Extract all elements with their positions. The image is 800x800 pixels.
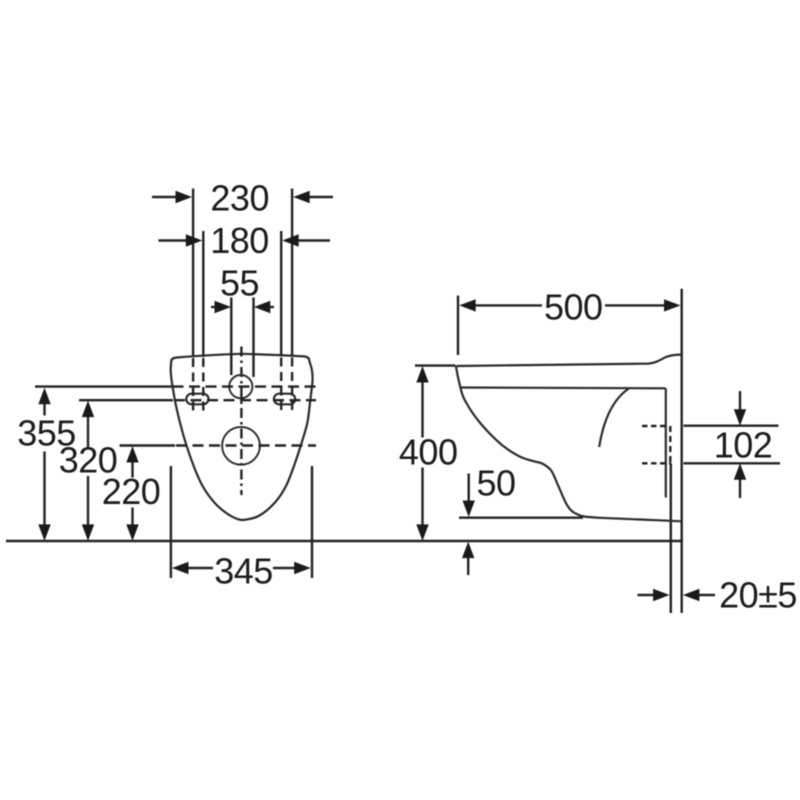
big hole circle bbox=[222, 427, 260, 465]
ext 500 left bbox=[457, 296, 459, 356]
ext horizontal 220 bbox=[120, 444, 176, 446]
svg-text:55: 55 bbox=[220, 263, 259, 304]
small hole circle bbox=[229, 375, 252, 398]
ext line 55 left bbox=[230, 298, 232, 376]
ext line 230 right bbox=[291, 189, 293, 357]
right fixing pill bbox=[274, 394, 295, 405]
ext 400 top bbox=[415, 364, 456, 366]
ext 345 right bbox=[311, 466, 313, 578]
ext line 180 left bbox=[202, 231, 204, 357]
svg-text:180: 180 bbox=[210, 220, 269, 261]
dim 320 vertical bbox=[87, 416, 89, 447]
dim 20±5 bbox=[638, 594, 655, 596]
dashed connection box bbox=[642, 425, 667, 427]
svg-text:500: 500 bbox=[544, 287, 603, 328]
dim 50 arrows bbox=[468, 474, 470, 502]
svg-text:230: 230 bbox=[210, 178, 269, 219]
ext 50 bbox=[459, 517, 583, 519]
ext line 230 left bbox=[192, 189, 194, 358]
front/bottom profile bbox=[456, 366, 682, 521]
dim 180 arrows bbox=[159, 239, 188, 241]
ext horizontal 320 bbox=[79, 399, 173, 401]
dim 220 vertical bbox=[131, 462, 133, 478]
ext 345 left bbox=[170, 466, 172, 578]
inner bowl arc bbox=[599, 389, 629, 448]
svg-text:400: 400 bbox=[399, 431, 458, 472]
ground line bbox=[6, 540, 683, 542]
ext horizontal 355 bbox=[35, 385, 172, 387]
wall inner line bbox=[670, 463, 672, 613]
fixture front outline bbox=[171, 354, 313, 520]
ext 102 lines bbox=[684, 425, 779, 427]
wall line bbox=[681, 289, 683, 613]
dim 400 bbox=[421, 382, 423, 438]
ext line 180 right bbox=[280, 231, 282, 357]
svg-text:345: 345 bbox=[214, 551, 273, 592]
left fixing pill bbox=[186, 394, 208, 405]
dim 345 bbox=[187, 567, 214, 569]
svg-text:50: 50 bbox=[476, 463, 515, 504]
center line (dash-dot) bbox=[240, 347, 242, 496]
rim bottom line bbox=[460, 386, 665, 389]
dim 500 bbox=[474, 304, 542, 306]
svg-text:20±5: 20±5 bbox=[719, 575, 797, 616]
fixture back edge bbox=[665, 388, 667, 497]
svg-text:102: 102 bbox=[714, 425, 773, 466]
top surface bbox=[457, 355, 682, 366]
svg-text:220: 220 bbox=[102, 471, 161, 512]
dim 102 arrows bbox=[739, 391, 741, 411]
dim 55 arrows bbox=[211, 306, 217, 308]
ext line 55 right bbox=[252, 298, 254, 378]
dim 355 vertical bbox=[43, 404, 45, 416]
dim 230 arrows bbox=[152, 196, 178, 198]
